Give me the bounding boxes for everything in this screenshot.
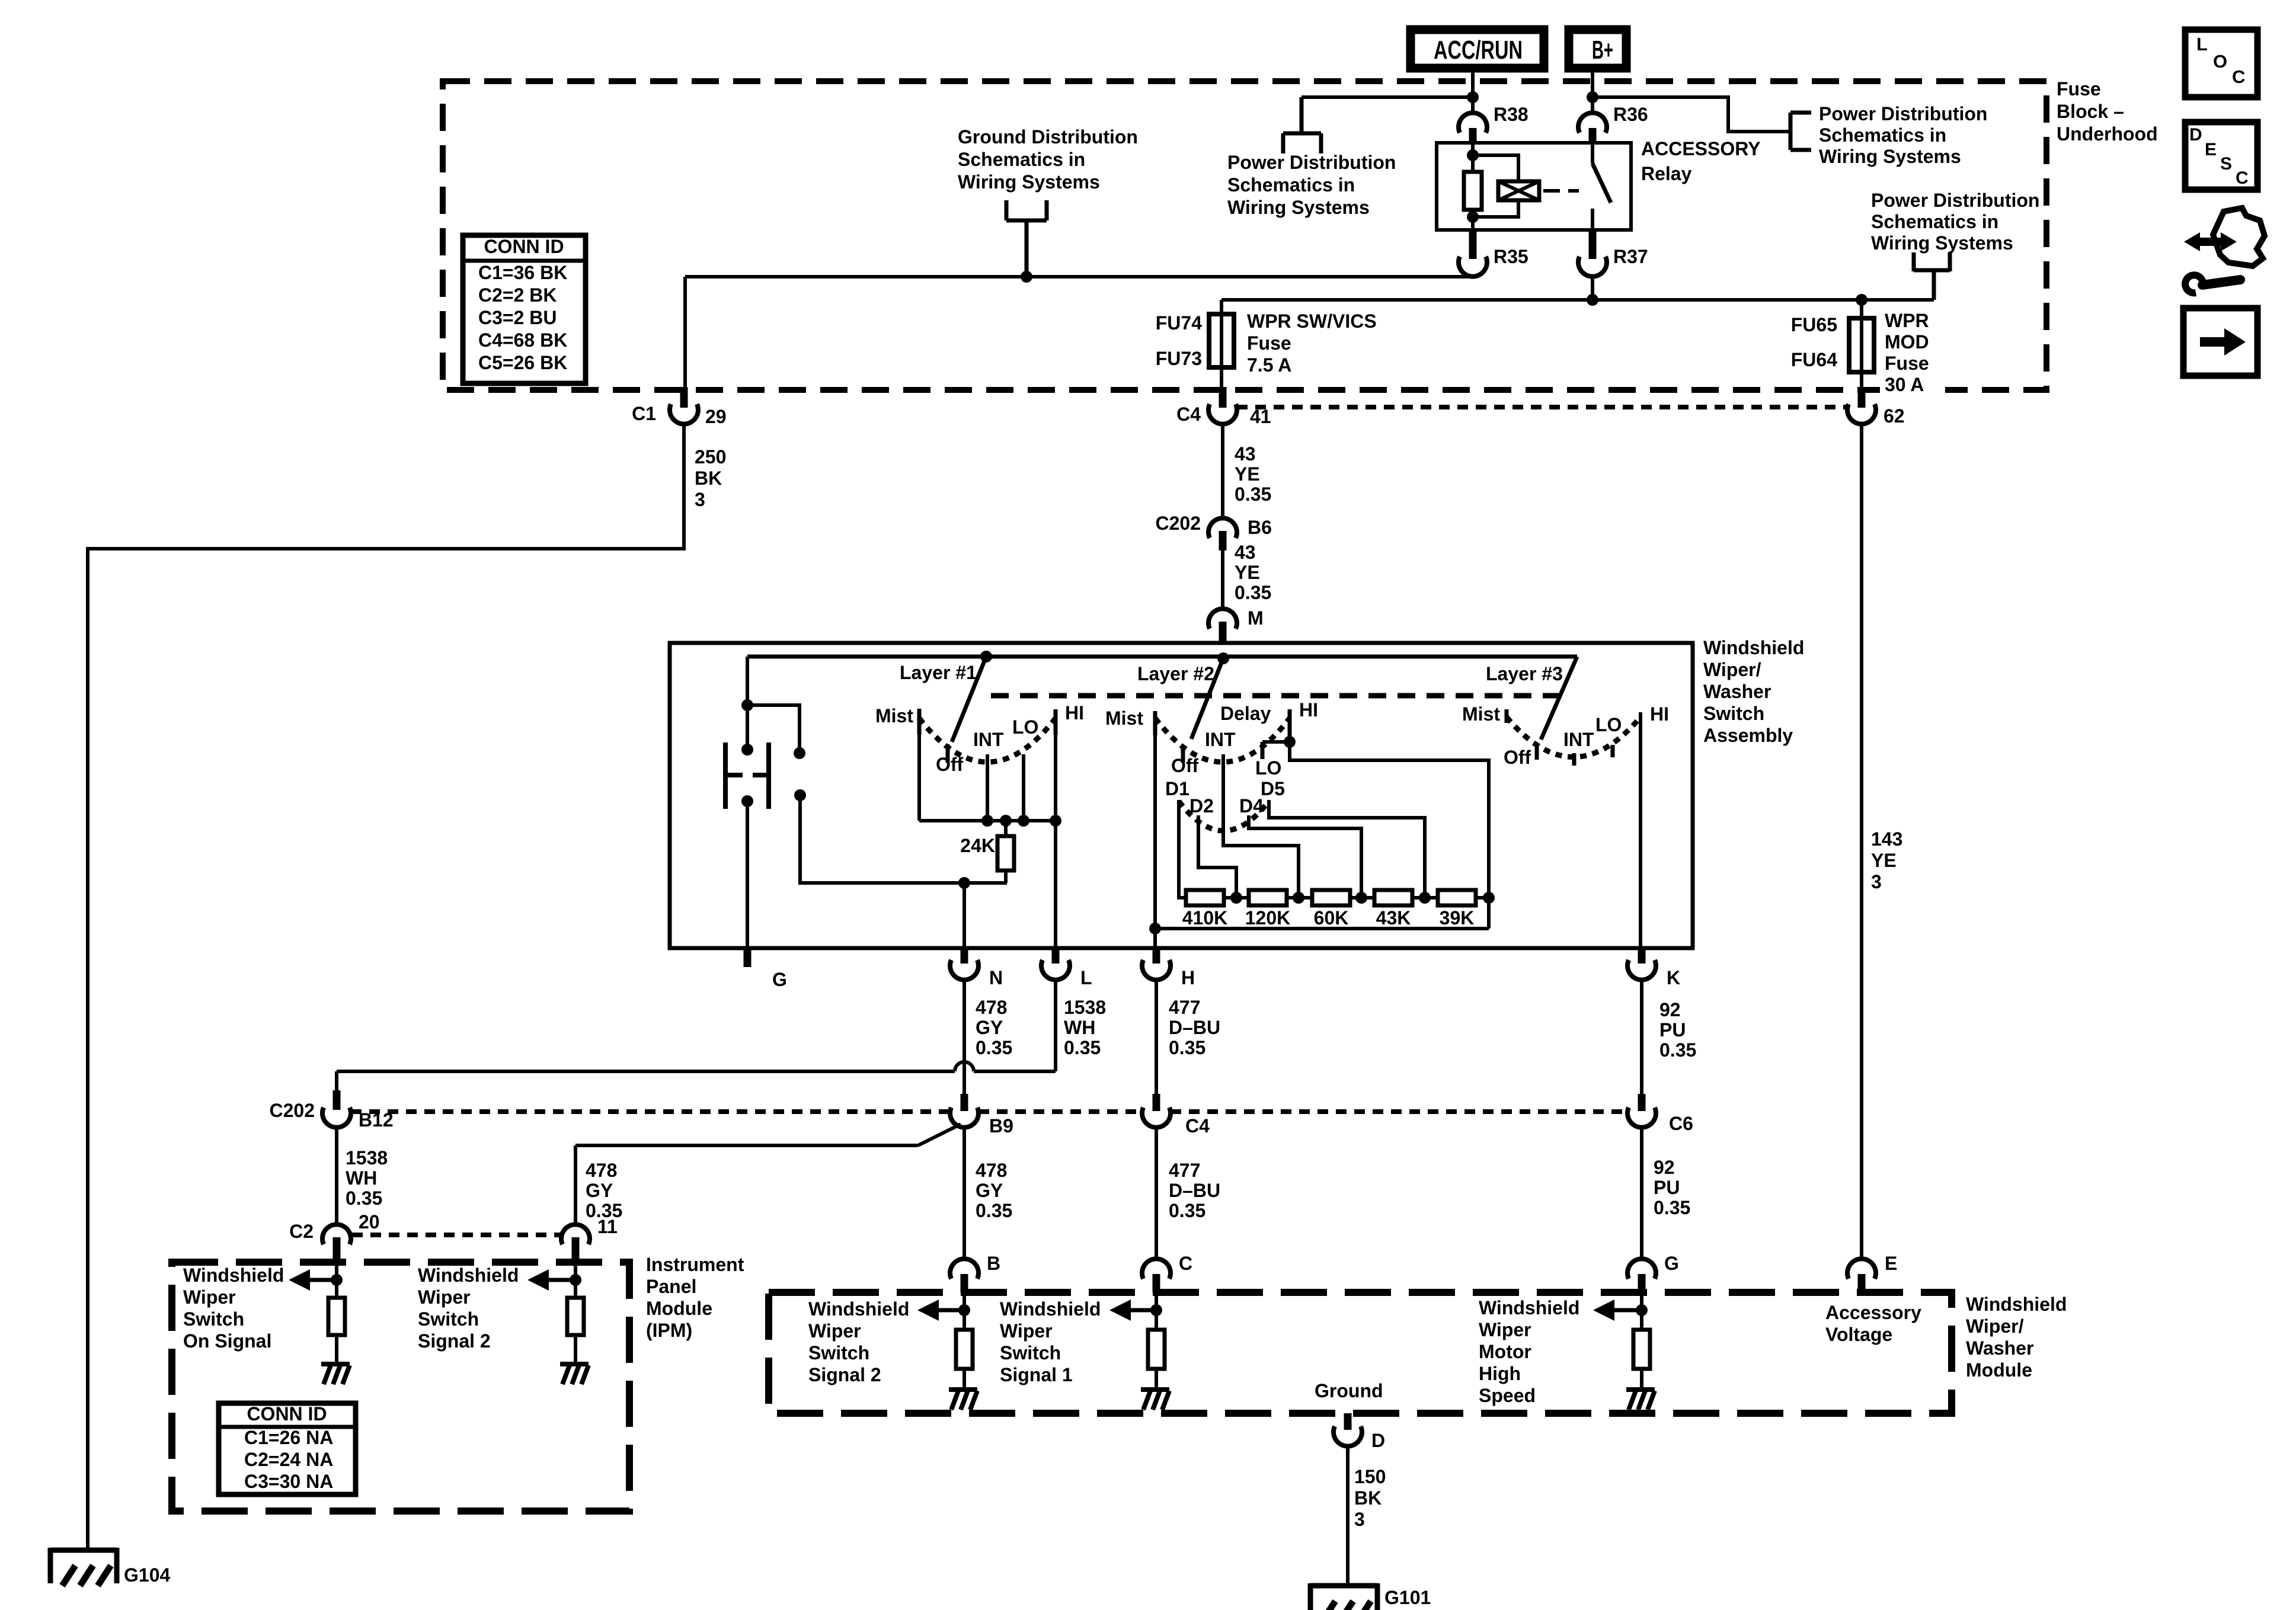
svg-text:C6: C6 — [1669, 1113, 1693, 1134]
svg-text:C4: C4 — [1176, 404, 1201, 425]
svg-text:Washer: Washer — [1966, 1337, 2033, 1359]
svg-text:Switch: Switch — [808, 1342, 869, 1363]
svg-text:WH: WH — [346, 1167, 377, 1189]
svg-text:11: 11 — [597, 1216, 618, 1237]
svg-text:Power Distribution: Power Distribution — [1227, 152, 1396, 173]
svg-text:D: D — [2189, 125, 2202, 145]
svg-text:Ground: Ground — [1315, 1380, 1383, 1401]
svg-text:Switch: Switch — [418, 1308, 479, 1330]
svg-text:C3=2 BU: C3=2 BU — [478, 307, 557, 328]
svg-text:Switch: Switch — [183, 1308, 244, 1330]
svg-text:Wiper: Wiper — [1000, 1320, 1053, 1342]
svg-text:478: 478 — [586, 1160, 617, 1181]
svg-text:Mist: Mist — [1105, 708, 1143, 729]
svg-text:0.35: 0.35 — [1235, 484, 1271, 505]
svg-text:D1: D1 — [1165, 778, 1189, 799]
svg-text:Power Distribution: Power Distribution — [1819, 103, 1987, 124]
svg-text:478: 478 — [976, 997, 1007, 1018]
svg-text:43: 43 — [1235, 542, 1256, 563]
svg-text:Module: Module — [646, 1298, 712, 1319]
svg-text:WPR: WPR — [1885, 310, 1929, 331]
svg-text:Wiper/: Wiper/ — [1966, 1315, 2024, 1337]
svg-text:On Signal: On Signal — [183, 1330, 271, 1352]
svg-text:120K: 120K — [1245, 907, 1291, 929]
svg-text:GY: GY — [976, 1017, 1003, 1038]
svg-text:FU73: FU73 — [1156, 348, 1202, 369]
svg-text:Wiring Systems: Wiring Systems — [1871, 232, 2013, 254]
svg-text:C202: C202 — [270, 1100, 315, 1121]
svg-text:HI: HI — [1065, 702, 1084, 724]
svg-text:B12: B12 — [359, 1109, 394, 1131]
svg-text:3: 3 — [1871, 871, 1882, 892]
svg-text:30 A: 30 A — [1885, 374, 1924, 395]
svg-text:Underhood: Underhood — [2057, 123, 2158, 145]
svg-text:Layer #2: Layer #2 — [1137, 663, 1214, 684]
svg-text:Motor: Motor — [1479, 1341, 1531, 1362]
svg-text:250: 250 — [695, 446, 726, 468]
svg-text:1538: 1538 — [346, 1147, 388, 1169]
svg-text:Switch: Switch — [1000, 1342, 1061, 1363]
svg-text:477: 477 — [1169, 1160, 1200, 1181]
svg-text:Windshield: Windshield — [1703, 637, 1804, 658]
svg-text:N: N — [989, 967, 1003, 988]
svg-text:Accessory: Accessory — [1825, 1302, 1921, 1323]
svg-text:Off: Off — [1504, 747, 1531, 768]
svg-text:1538: 1538 — [1064, 997, 1106, 1018]
svg-text:478: 478 — [976, 1160, 1007, 1181]
svg-text:LO: LO — [1012, 716, 1038, 738]
svg-text:C2: C2 — [289, 1221, 314, 1242]
svg-text:Fuse: Fuse — [2057, 78, 2101, 100]
svg-text:Wiper: Wiper — [183, 1286, 236, 1308]
svg-text:High: High — [1479, 1363, 1521, 1384]
svg-text:0.35: 0.35 — [1169, 1037, 1205, 1058]
svg-text:Mist: Mist — [1462, 703, 1500, 725]
svg-text:HI: HI — [1650, 703, 1669, 725]
svg-text:Mist: Mist — [875, 705, 913, 726]
svg-text:Speed: Speed — [1479, 1385, 1536, 1406]
svg-text:INT: INT — [1205, 729, 1236, 750]
svg-text:C: C — [2236, 168, 2249, 188]
svg-text:PU: PU — [1659, 1019, 1686, 1041]
svg-text:Wiper: Wiper — [1479, 1319, 1531, 1340]
svg-text:BK: BK — [1354, 1487, 1382, 1509]
svg-text:D4: D4 — [1239, 795, 1264, 817]
svg-text:D5: D5 — [1261, 778, 1285, 799]
svg-text:M: M — [1248, 607, 1264, 629]
svg-text:Wiring Systems: Wiring Systems — [1819, 146, 1961, 167]
svg-text:0.35: 0.35 — [1659, 1039, 1696, 1061]
svg-text:Windshield: Windshield — [418, 1265, 519, 1286]
svg-text:FU64: FU64 — [1791, 349, 1837, 370]
svg-text:LO: LO — [1255, 757, 1281, 779]
svg-text:FU74: FU74 — [1156, 312, 1202, 334]
svg-text:39K: 39K — [1440, 907, 1475, 929]
svg-text:Layer #3: Layer #3 — [1486, 663, 1563, 684]
svg-text:INT: INT — [1563, 729, 1594, 750]
svg-text:C4: C4 — [1185, 1115, 1210, 1137]
svg-text:Voltage: Voltage — [1825, 1324, 1892, 1345]
svg-text:GY: GY — [586, 1180, 613, 1201]
svg-text:B+: B+ — [1592, 36, 1613, 65]
svg-text:YE: YE — [1235, 562, 1260, 583]
svg-text:3: 3 — [695, 489, 705, 510]
svg-text:150: 150 — [1354, 1466, 1386, 1487]
svg-text:143: 143 — [1871, 828, 1902, 850]
svg-text:R37: R37 — [1613, 246, 1648, 267]
svg-text:C202: C202 — [1156, 513, 1201, 534]
svg-text:WH: WH — [1064, 1017, 1095, 1038]
svg-text:Schematics in: Schematics in — [1819, 124, 1946, 146]
svg-text:B6: B6 — [1248, 517, 1272, 538]
svg-text:Relay: Relay — [1641, 163, 1692, 184]
svg-text:D: D — [1371, 1430, 1385, 1451]
svg-text:ACCESSORY: ACCESSORY — [1641, 138, 1761, 159]
svg-text:C5=26 BK: C5=26 BK — [478, 352, 567, 373]
svg-text:C: C — [1179, 1253, 1192, 1274]
svg-text:Windshield: Windshield — [183, 1265, 284, 1286]
svg-text:24K: 24K — [960, 835, 995, 856]
svg-text:Module: Module — [1966, 1359, 2032, 1381]
svg-text:G101: G101 — [1384, 1587, 1431, 1608]
svg-text:43K: 43K — [1376, 907, 1411, 929]
svg-text:Off: Off — [1171, 755, 1199, 776]
svg-text:C: C — [2232, 66, 2245, 87]
svg-text:MOD: MOD — [1885, 331, 1929, 353]
svg-text:Washer: Washer — [1703, 681, 1771, 702]
svg-text:41: 41 — [1250, 406, 1271, 427]
svg-text:G: G — [1664, 1253, 1679, 1274]
svg-text:G: G — [772, 969, 787, 990]
svg-text:410K: 410K — [1182, 907, 1228, 929]
svg-text:R35: R35 — [1494, 246, 1528, 267]
svg-text:Schematics in: Schematics in — [1227, 174, 1355, 196]
svg-text:0.35: 0.35 — [1169, 1200, 1205, 1221]
svg-text:29: 29 — [705, 406, 727, 427]
svg-text:Schematics in: Schematics in — [1871, 211, 1998, 232]
svg-text:YE: YE — [1235, 463, 1260, 485]
svg-text:60K: 60K — [1314, 907, 1349, 929]
svg-text:Layer #1: Layer #1 — [900, 662, 977, 683]
svg-text:G104: G104 — [124, 1564, 170, 1586]
svg-text:20: 20 — [359, 1211, 380, 1233]
svg-text:H: H — [1181, 967, 1195, 988]
svg-text:E: E — [1885, 1253, 1897, 1274]
svg-text:92: 92 — [1659, 999, 1681, 1020]
svg-text:LO: LO — [1595, 714, 1622, 735]
svg-text:Off: Off — [936, 754, 964, 775]
svg-text:Windshield: Windshield — [1479, 1297, 1579, 1318]
svg-text:C2=2 BK: C2=2 BK — [478, 284, 557, 306]
svg-text:WPR SW/VICS: WPR SW/VICS — [1247, 311, 1377, 332]
svg-text:477: 477 — [1169, 997, 1200, 1018]
svg-text:CONN ID: CONN ID — [247, 1403, 327, 1425]
svg-text:92: 92 — [1654, 1157, 1675, 1178]
svg-text:R38: R38 — [1494, 104, 1528, 125]
svg-text:D2: D2 — [1189, 795, 1214, 817]
svg-text:K: K — [1667, 967, 1680, 988]
svg-text:R36: R36 — [1613, 104, 1648, 125]
svg-text:0.35: 0.35 — [1064, 1037, 1101, 1058]
svg-text:Windshield: Windshield — [1966, 1294, 2067, 1315]
svg-text:0.35: 0.35 — [1235, 582, 1271, 603]
svg-text:Wiper: Wiper — [808, 1320, 861, 1342]
svg-text:Signal 2: Signal 2 — [418, 1330, 491, 1352]
svg-text:C1: C1 — [632, 403, 656, 424]
svg-text:YE: YE — [1871, 850, 1897, 871]
svg-text:Instrument: Instrument — [646, 1254, 744, 1275]
svg-text:B: B — [987, 1253, 1000, 1274]
svg-text:Wiring Systems: Wiring Systems — [958, 171, 1100, 193]
svg-text:0.35: 0.35 — [346, 1188, 382, 1209]
svg-text:43: 43 — [1235, 443, 1256, 465]
svg-text:Wiper: Wiper — [418, 1286, 471, 1308]
svg-text:PU: PU — [1654, 1177, 1680, 1198]
svg-text:ACC/RUN: ACC/RUN — [1434, 36, 1523, 65]
svg-text:0.35: 0.35 — [1654, 1197, 1690, 1218]
svg-text:3: 3 — [1354, 1509, 1365, 1530]
svg-text:0.35: 0.35 — [976, 1037, 1012, 1058]
svg-text:D–BU: D–BU — [1169, 1180, 1220, 1201]
svg-text:C1=36 BK: C1=36 BK — [478, 262, 567, 283]
svg-text:Wiper/: Wiper/ — [1703, 659, 1761, 680]
svg-text:C4=68 BK: C4=68 BK — [478, 329, 567, 351]
svg-text:62: 62 — [1884, 405, 1905, 427]
svg-text:Schematics in: Schematics in — [958, 149, 1085, 170]
svg-text:L: L — [1080, 967, 1092, 988]
svg-text:S: S — [2220, 154, 2232, 174]
svg-text:(IPM): (IPM) — [646, 1320, 692, 1341]
svg-text:7.5 A: 7.5 A — [1247, 354, 1291, 376]
svg-text:Signal 1: Signal 1 — [1000, 1364, 1073, 1385]
svg-text:Ground Distribution: Ground Distribution — [958, 126, 1138, 148]
svg-text:C1=26 NA: C1=26 NA — [244, 1427, 333, 1448]
svg-text:GY: GY — [976, 1180, 1003, 1201]
svg-text:B9: B9 — [989, 1115, 1013, 1137]
svg-text:Switch: Switch — [1703, 703, 1764, 724]
svg-text:Block –: Block – — [2057, 101, 2124, 122]
svg-text:INT: INT — [973, 729, 1004, 750]
svg-text:FU65: FU65 — [1791, 314, 1837, 335]
svg-text:Signal 2: Signal 2 — [808, 1364, 881, 1385]
svg-text:Assembly: Assembly — [1703, 725, 1793, 746]
svg-text:Panel: Panel — [646, 1276, 696, 1297]
svg-text:C2=24 NA: C2=24 NA — [244, 1449, 333, 1470]
svg-text:Fuse: Fuse — [1885, 353, 1929, 374]
svg-text:Windshield: Windshield — [1000, 1298, 1101, 1320]
svg-text:C3=30 NA: C3=30 NA — [244, 1471, 333, 1492]
svg-text:Fuse: Fuse — [1247, 332, 1291, 354]
svg-text:L: L — [2196, 34, 2208, 55]
svg-text:O: O — [2213, 51, 2227, 72]
svg-text:E: E — [2205, 140, 2217, 159]
svg-text:0.35: 0.35 — [976, 1200, 1012, 1221]
svg-text:Power Distribution: Power Distribution — [1871, 190, 2039, 211]
svg-text:D–BU: D–BU — [1169, 1017, 1220, 1038]
svg-text:Windshield: Windshield — [808, 1298, 909, 1320]
svg-text:BK: BK — [695, 468, 722, 489]
svg-text:Delay: Delay — [1220, 703, 1271, 724]
svg-text:Wiring Systems: Wiring Systems — [1227, 197, 1370, 218]
svg-text:HI: HI — [1299, 699, 1318, 721]
svg-text:CONN ID: CONN ID — [484, 236, 564, 257]
